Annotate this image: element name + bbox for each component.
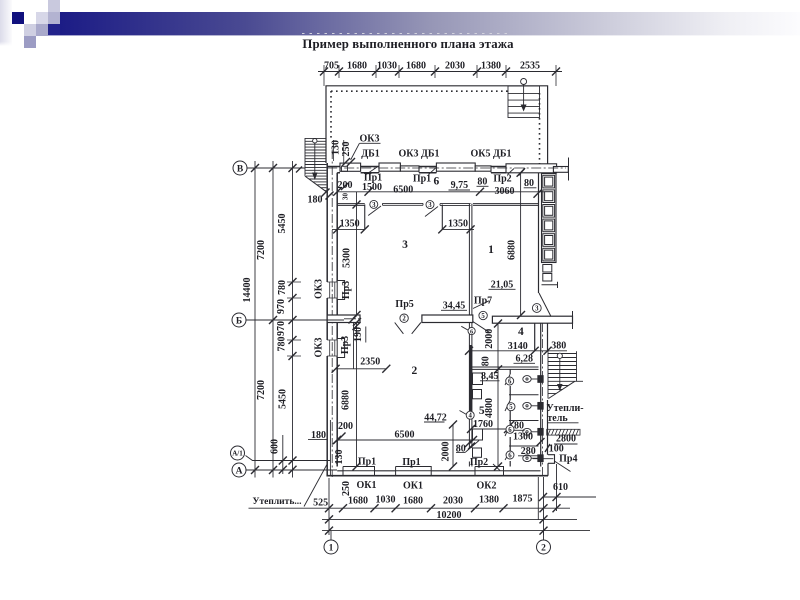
dim extension lines 130/250 [334, 140, 344, 163]
svg-text:1760: 1760 [473, 419, 493, 430]
svg-text:14400: 14400 [242, 278, 253, 303]
window OK1 left box [343, 467, 375, 476]
lintel box window A tall [379, 163, 400, 171]
svg-text:30: 30 [342, 193, 350, 201]
svg-text:ОК2: ОК2 [476, 481, 496, 492]
svg-text:1680: 1680 [347, 61, 367, 72]
insulation hatch band [547, 429, 580, 435]
window OK3 lower box [327, 340, 337, 356]
svg-text:1380: 1380 [479, 495, 499, 506]
slashes at lower-left wall 180/200 [333, 433, 346, 445]
labels middle [308, 280, 516, 442]
svg-text:1680: 1680 [406, 61, 426, 72]
extension ticks left [287, 282, 301, 356]
svg-text:970: 970 [276, 321, 287, 336]
svg-text:525: 525 [313, 498, 328, 509]
2800 underline [554, 443, 578, 445]
balcony dotted inner line right [539, 93, 541, 166]
svg-text:2535: 2535 [520, 61, 540, 72]
axis circle 2 [537, 540, 551, 554]
svg-text:Б: Б [236, 317, 242, 327]
lintel box window stair-landing [340, 163, 361, 171]
svg-text:80: 80 [480, 356, 491, 366]
stall divider 2 [509, 420, 539, 422]
fixture circle 6b [506, 425, 514, 433]
bottom dim slashes row1 [325, 504, 561, 512]
stall divider 3 [509, 445, 539, 447]
leader Pr7 [473, 301, 489, 309]
window OK3 upper box [327, 282, 337, 298]
svg-text:ОК5 ДБ1: ОК5 ДБ1 [470, 149, 511, 160]
svg-text:2030: 2030 [445, 61, 465, 72]
header decoration: navy square [12, 12, 24, 24]
svg-text:200: 200 [338, 421, 353, 432]
labels top wall [308, 134, 537, 230]
underline OK3 [360, 142, 381, 144]
balcony outline [326, 86, 548, 164]
svg-text:ОК1: ОК1 [356, 480, 376, 491]
porch notch Pr4 [548, 455, 555, 464]
svg-text:6: 6 [434, 176, 440, 188]
wall bottom inner ledge [337, 470, 540, 472]
node circle 3a [370, 200, 378, 208]
fixture circle 5 [507, 403, 515, 411]
svg-text:1300: 1300 [513, 432, 533, 443]
svg-text:4800: 4800 [484, 398, 495, 418]
dim 6500 room2 [337, 439, 473, 441]
svg-text:190: 190 [353, 327, 364, 342]
duct bottom tee [542, 282, 558, 288]
interior dims [304, 143, 571, 506]
svg-text:ОК3: ОК3 [314, 279, 325, 299]
header decoration: bar step [48, 24, 60, 35]
B wall door Pr5 leaf left [395, 323, 404, 334]
wall top window glazing lines [379, 170, 543, 172]
axis line V tick at stair [296, 167, 302, 173]
B wall left block [327, 315, 360, 323]
dim 1300/80 marks [506, 421, 544, 446]
lintel Pr3 upper box [337, 281, 344, 300]
duct squares [543, 175, 555, 261]
wall right lower faces [541, 323, 548, 466]
svg-text:130: 130 [334, 450, 345, 465]
svg-text:3060: 3060 [495, 186, 515, 197]
svg-text:1380: 1380 [481, 61, 501, 72]
axis circle 1 [324, 540, 338, 554]
svg-text:4: 4 [518, 326, 524, 338]
slashes 130/250 top window [342, 158, 355, 166]
svg-text:Утеплить...: Утеплить... [253, 497, 302, 507]
svg-text:5: 5 [509, 404, 513, 411]
dim 190 stub [353, 323, 355, 370]
dim line 1500/6500 top [337, 191, 545, 193]
dim row 1 [249, 507, 571, 509]
svg-text:Пр1: Пр1 [413, 174, 431, 185]
bathroom stall front wall [509, 369, 511, 466]
svg-text:1680: 1680 [348, 496, 368, 507]
dim 6880 room1 vertical [520, 173, 522, 315]
axis line A [246, 469, 337, 471]
bottom dimension system [249, 464, 597, 540]
svg-text:6880: 6880 [507, 240, 518, 260]
wall right upper: inner face [538, 173, 540, 293]
svg-text:380: 380 [551, 341, 566, 352]
svg-text:7200: 7200 [256, 240, 267, 260]
axis circle A1 [231, 446, 245, 460]
svg-text:1: 1 [329, 544, 334, 554]
slash 100 [545, 444, 550, 452]
labels left column rotated [242, 214, 289, 455]
corridor5 radiator 1 [473, 373, 483, 385]
leader Pr1 b [429, 167, 438, 175]
window OK1 right box [396, 467, 432, 476]
bathroom block top wall [472, 367, 539, 369]
dim vertical bath corridor [497, 323, 499, 467]
svg-text:2: 2 [402, 316, 406, 323]
alcove stub left [364, 205, 366, 230]
lintel Pr3 lower box [337, 339, 344, 358]
dim alcove left [332, 228, 365, 230]
svg-text:7200: 7200 [256, 380, 267, 400]
slashes 80 door partition [465, 440, 475, 450]
svg-text:6: 6 [508, 427, 512, 434]
labels bathroom block [441, 329, 584, 468]
dim 6880 room2 vertical [356, 323, 358, 467]
svg-text:3140: 3140 [508, 341, 528, 352]
svg-text:2000: 2000 [441, 442, 452, 462]
header decoration: medium square3 [24, 36, 36, 48]
leader node3 right-lower [461, 326, 470, 331]
partition room2/bath upper [469, 323, 472, 467]
svg-text:10200: 10200 [437, 510, 462, 521]
svg-text:600: 600 [270, 439, 281, 454]
node circle 5 door [479, 311, 487, 319]
svg-text:1030: 1030 [376, 495, 396, 506]
svg-text:1350: 1350 [340, 219, 360, 230]
wall left inner face [336, 173, 338, 467]
svg-text:2350: 2350 [360, 357, 380, 368]
slash on window C [519, 168, 526, 176]
header decoration: light square top [48, 0, 60, 12]
top dimension labels [324, 61, 540, 72]
svg-text:6: 6 [508, 453, 512, 460]
B wall right end cap [572, 311, 574, 329]
header decoration: medium square [24, 24, 36, 36]
node circle 2 door [400, 314, 408, 322]
svg-text:Пр5: Пр5 [395, 299, 413, 310]
svg-text:3: 3 [535, 306, 539, 313]
wall left outer face [326, 163, 328, 477]
svg-text:тель: тель [547, 413, 568, 424]
svg-text:Пр4: Пр4 [559, 454, 577, 465]
insulation leader line [547, 422, 579, 424]
header decoration: light square [36, 12, 48, 24]
svg-text:6500: 6500 [393, 185, 413, 196]
svg-text:1680: 1680 [403, 496, 423, 507]
B wall door Pr5 leaf right [412, 323, 421, 334]
svg-text:200: 200 [338, 180, 353, 191]
svg-text:ОК1: ОК1 [403, 481, 423, 492]
dim vertical 2000 room2 corner [452, 424, 454, 467]
stall door leafs [505, 374, 510, 460]
svg-text:970: 970 [276, 299, 287, 314]
svg-text:1875: 1875 [513, 494, 533, 505]
svg-text:Пр1: Пр1 [402, 457, 420, 468]
left dimension system [246, 161, 567, 478]
svg-text:2800: 2800 [556, 434, 576, 445]
svg-text:2000: 2000 [484, 329, 495, 349]
duct small boxes [543, 265, 552, 273]
dim row 2 [322, 518, 577, 520]
B wall right segment [492, 316, 572, 323]
svg-text:250: 250 [341, 481, 352, 496]
axis circle B [232, 313, 246, 327]
svg-text:1500: 1500 [362, 182, 382, 193]
svg-text:Пр3: Пр3 [340, 336, 351, 354]
svg-text:3: 3 [372, 202, 376, 209]
svg-text:2030: 2030 [443, 496, 463, 507]
dim 1760 [471, 428, 508, 430]
stair lower-right [548, 351, 583, 399]
svg-text:610: 610 [553, 482, 568, 493]
svg-text:3: 3 [402, 239, 408, 251]
stair upper-left [305, 138, 326, 191]
600 dim line [282, 435, 284, 474]
node circle 6 room2 [468, 327, 475, 334]
lintel box window A small [400, 166, 419, 171]
stair upper-right [508, 79, 540, 118]
header decoration: left gradient strip [0, 0, 12, 46]
top dimension extension lines [324, 65, 556, 86]
top dimension tick slashes [320, 68, 560, 76]
svg-text:Пр2: Пр2 [493, 174, 511, 185]
svg-text:А: А [236, 467, 243, 477]
wall bottom outer face [327, 475, 548, 477]
svg-text:5450: 5450 [278, 389, 289, 409]
wall top window jambs [379, 167, 543, 173]
room number labels [402, 239, 524, 417]
toilet 4 [523, 455, 543, 462]
lintel box window B tall [436, 163, 475, 171]
header decoration: medium square right [48, 12, 60, 24]
svg-text:5450: 5450 [277, 214, 288, 234]
dim row 3 [322, 530, 590, 532]
svg-text:2: 2 [412, 365, 418, 377]
fixture circle 6a [506, 377, 514, 385]
svg-text:Пр1: Пр1 [358, 457, 376, 468]
ghost dotted line [302, 33, 512, 35]
fixture circle 6c [506, 451, 514, 459]
svg-text:1350: 1350 [448, 219, 468, 230]
svg-text:780: 780 [277, 337, 288, 352]
axis circle A [232, 463, 246, 477]
partition room2/bath bold strip [469, 345, 472, 415]
leader circle 4 [460, 411, 467, 415]
bottom dim slashes row2 row3 [325, 515, 548, 534]
leader node3 top-b [425, 207, 438, 217]
axis line V [247, 167, 305, 169]
svg-text:6500: 6500 [395, 429, 415, 440]
leader DB1 top-left [351, 143, 360, 160]
axis line B [246, 319, 344, 321]
axis circle V [233, 161, 247, 175]
top dimension line [318, 71, 562, 73]
wall bottom-right corner verticals [547, 463, 549, 475]
labels left wall rotated [314, 240, 518, 410]
header decoration: main gradient bar [60, 12, 800, 35]
wall top inner face [337, 172, 547, 174]
corridor5 radiator 2 [473, 390, 482, 399]
B wall stub at room4 [534, 323, 536, 351]
dim alcove right [442, 228, 474, 230]
wall right upper: duct column outline [542, 174, 557, 263]
svg-text:5300: 5300 [342, 248, 353, 268]
svg-text:780: 780 [277, 280, 288, 295]
svg-text:2: 2 [541, 544, 546, 554]
wall B-axis horizontal band [327, 315, 572, 323]
lintel box window C [506, 164, 557, 173]
svg-text:ОК3: ОК3 [314, 337, 325, 357]
bottom extension verticals [329, 464, 557, 535]
corridor5 radiator 3 [473, 429, 483, 440]
dim 610 slashes [539, 493, 561, 501]
balcony dotted inner line top [331, 90, 508, 92]
window OK2 box [475, 467, 504, 476]
svg-text:Пр7: Пр7 [474, 296, 492, 307]
dim 3140/380 [469, 350, 567, 352]
leader Pr1 a [366, 167, 378, 175]
node circle 3 right wall [532, 304, 541, 313]
svg-text:ОК3 ДБ1: ОК3 ДБ1 [398, 149, 439, 160]
svg-text:180: 180 [308, 195, 323, 206]
svg-text:1: 1 [488, 244, 494, 256]
leader toilet4 [533, 458, 554, 460]
partition rooms 3/1 [469, 204, 472, 315]
dim line 7200 [272, 161, 274, 478]
svg-text:А/1: А/1 [232, 450, 243, 458]
fixture circle 4 [466, 411, 474, 419]
stall divider 1 [509, 394, 539, 396]
svg-text:3: 3 [428, 202, 432, 209]
svg-text:5: 5 [481, 313, 485, 320]
svg-text:250: 250 [341, 142, 352, 157]
wall left axis dash-dot [331, 150, 333, 477]
lintel box window B small [475, 166, 491, 171]
wall right lower axis dash-dot [542, 323, 544, 477]
axis line V dashdot [327, 167, 566, 169]
leader Pr2 top [508, 169, 515, 175]
slashes at top-left wall 180/200 [322, 183, 349, 200]
dim line detail [292, 161, 294, 478]
svg-text:Пр3: Пр3 [341, 281, 352, 299]
header decoration: medium square2 [36, 24, 48, 36]
svg-text:6880: 6880 [341, 390, 352, 410]
leader Pr2 bottom [493, 464, 500, 471]
right wall diagonal to node 3 [539, 293, 551, 317]
dim 5300 vertical [356, 192, 358, 315]
dim line 14400 [254, 161, 256, 478]
alcove stub right [441, 205, 443, 230]
node circle 3b [426, 201, 434, 209]
labels bottom [253, 450, 568, 521]
svg-text:ДБ1: ДБ1 [361, 149, 380, 160]
svg-text:6: 6 [508, 379, 512, 386]
dim 2350 room2 [336, 368, 387, 370]
axis line A1 [246, 456, 331, 461]
svg-text:705: 705 [324, 61, 339, 72]
axis line B dashdot [344, 318, 360, 320]
svg-text:1030: 1030 [377, 61, 397, 72]
slashes B-wall 190 [349, 316, 362, 327]
toilet 1 [523, 376, 543, 383]
toilet 3 [523, 428, 543, 435]
svg-text:Пример выполненного плана этаж: Пример выполненного плана этажа [302, 37, 514, 51]
wall left insulation line [329, 420, 331, 476]
B wall middle segment [422, 315, 473, 323]
balcony dotted inner line left [330, 91, 332, 140]
dim 610 line [543, 496, 596, 498]
partition room6 corridor [337, 204, 365, 206]
leader node3 top-a [368, 206, 381, 216]
corridor5 radiator 4 [473, 448, 482, 457]
leader Pr4 [555, 461, 571, 471]
B wall door Pr7 leaf [473, 322, 490, 333]
left dim slashes [251, 164, 297, 474]
svg-text:4: 4 [468, 413, 472, 420]
leader uteplit bottom-left [304, 464, 327, 507]
svg-text:Пр2: Пр2 [470, 457, 488, 468]
toilet 2 [523, 402, 543, 409]
svg-text:В: В [237, 165, 244, 175]
wall top outer face [327, 166, 547, 168]
